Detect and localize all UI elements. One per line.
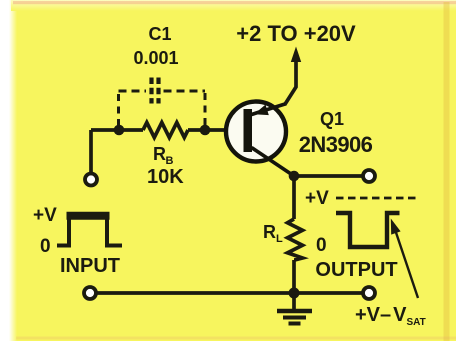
svg-text:+V: +V: [33, 205, 57, 226]
ground: [277, 293, 312, 324]
supply wire with arrow: [285, 56, 297, 105]
pointer arrow to Vsat level: [396, 231, 419, 298]
node: collector junction: [289, 171, 300, 182]
svg-text:10K: 10K: [147, 166, 184, 188]
wire: bottom rail: [96, 291, 363, 295]
terminal: input top (open circle): [85, 174, 97, 186]
node: ground junction: [289, 288, 300, 299]
faint scan border tint right: [444, 2, 450, 341]
resistor RB: [143, 123, 188, 138]
svg-text:0: 0: [316, 235, 327, 256]
svg-text:+2 TO +20V: +2 TO +20V: [236, 21, 356, 46]
wire: collector to output terminal: [294, 174, 363, 178]
terminal: input bottom (open circle): [84, 287, 96, 299]
capacitor C1 (dashed, bridging RB): [119, 78, 206, 127]
node: junction left of RB: [114, 125, 125, 136]
input waveform: [57, 216, 122, 246]
wire: input node to base (horizontal): [91, 128, 244, 132]
wire: collector junction down to RL: [292, 176, 296, 219]
svg-text:0.001: 0.001: [133, 48, 178, 68]
svg-text:INPUT: INPUT: [60, 255, 120, 277]
output waveform: [336, 213, 400, 247]
terminal: output top (open circle): [363, 170, 375, 182]
transistor Q1 (PNP 2N3906): [226, 102, 294, 177]
svg-text:OUTPUT: OUTPUT: [315, 259, 397, 281]
svg-text:0: 0: [40, 236, 51, 257]
svg-text:+V: +V: [305, 188, 329, 209]
svg-text:2N3906: 2N3906: [299, 132, 373, 157]
faint scan border tint bottom: [16, 337, 456, 340]
node: junction right of RB: [200, 125, 211, 136]
wire: RL to ground junction: [292, 260, 296, 293]
supply arrowhead: [291, 47, 301, 63]
resistor RL: [288, 219, 303, 260]
faint scan border tint top: [13, 1, 456, 4]
svg-text:C1: C1: [148, 24, 171, 44]
svg-text:Q1: Q1: [320, 109, 344, 129]
dashed +V reference line: [336, 197, 416, 200]
wire: left drop to input terminal: [89, 130, 93, 173]
terminal: output bottom (open circle): [363, 287, 375, 299]
